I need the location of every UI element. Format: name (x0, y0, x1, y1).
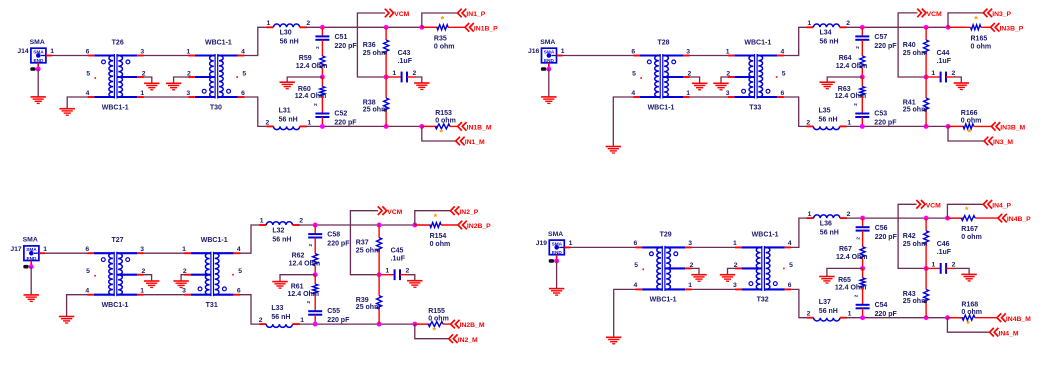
transformer T29 labels (634, 231, 694, 303)
svg-text:END: END (33, 58, 44, 63)
svg-text:R167: R167 (961, 226, 978, 233)
transformer T29 (636, 246, 692, 291)
svg-text:0 ohm: 0 ohm (428, 315, 449, 322)
svg-text:0 ohm: 0 ohm (961, 234, 982, 241)
svg-text:56 nH: 56 nH (271, 314, 290, 321)
svg-text:6: 6 (631, 48, 635, 55)
svg-text:2: 2 (308, 244, 313, 247)
svg-text:L32: L32 (272, 227, 284, 234)
R167 star (965, 205, 969, 216)
svg-text:IN3_P: IN3_P (992, 11, 1011, 18)
svg-text:C45: C45 (391, 248, 404, 255)
svg-text:J16: J16 (528, 48, 540, 55)
svg-text:C56: C56 (875, 225, 888, 232)
svg-text:.1uF: .1uF (391, 256, 406, 263)
resistor R38 (384, 98, 389, 111)
svg-text:2: 2 (853, 103, 858, 106)
wire mid tap to ground (280, 275, 315, 282)
flag IN4_P (983, 200, 1011, 209)
svg-text:4: 4 (85, 288, 89, 295)
svg-text:0 ohm: 0 ohm (971, 43, 992, 50)
svg-text:0 ohm: 0 ohm (961, 118, 982, 125)
wire VCM (357, 13, 386, 77)
svg-text:5: 5 (242, 70, 246, 77)
resistor R153 (435, 124, 450, 129)
C56-R67 lead (862, 231, 864, 247)
svg-text:L31: L31 (279, 108, 291, 115)
svg-text:R155: R155 (428, 308, 445, 315)
C53 labels (853, 103, 897, 127)
R40 lead bottom (925, 54, 927, 78)
svg-text:220 pF: 220 pF (327, 241, 350, 248)
resistor R168 (962, 315, 975, 320)
transformer T26 labels (86, 40, 146, 112)
C52 labels (313, 103, 357, 127)
inductor L31 (274, 126, 300, 129)
R61 labels (288, 284, 320, 298)
resistor R36 (384, 40, 389, 54)
svg-text:56 nH: 56 nH (279, 117, 298, 124)
C45 labels (385, 248, 409, 275)
R42 lead top (925, 218, 927, 231)
svg-text:C43: C43 (398, 50, 411, 57)
svg-text:3: 3 (726, 90, 730, 97)
R42 lead bottom (925, 244, 927, 268)
R59 labels (296, 55, 328, 70)
svg-text:T32: T32 (757, 297, 769, 304)
svg-text:6: 6 (241, 90, 245, 97)
resistor R43 (924, 289, 929, 302)
junction rail/R43 (924, 315, 929, 320)
svg-text:2: 2 (413, 70, 417, 77)
resistor R65 (860, 278, 865, 288)
transformer T28 (634, 54, 690, 99)
transformer T27 labels (85, 237, 145, 309)
svg-text:5: 5 (782, 70, 786, 77)
junction L32/C58 (313, 223, 318, 228)
svg-text:IN3_M: IN3_M (993, 139, 1013, 146)
svg-text:4: 4 (631, 90, 635, 97)
R59 lead bottom (321, 68, 323, 77)
R61-C55 lead (314, 294, 316, 311)
C43 lead 2 (407, 76, 415, 78)
inductor L35 (813, 126, 839, 129)
ground at T27 pin2 (144, 281, 159, 288)
svg-text:1: 1 (182, 246, 186, 253)
svg-text:C54: C54 (875, 302, 888, 309)
resistor R67 (860, 247, 865, 259)
R153 lead right (450, 125, 458, 127)
R165 lead left (948, 26, 971, 28)
svg-text:R59: R59 (299, 55, 312, 62)
L35 labels (806, 108, 851, 127)
flag IN3_M (984, 137, 1013, 146)
wire top rail (846, 26, 964, 28)
R165 labels (971, 35, 992, 50)
R166 lead left (948, 125, 963, 127)
flag VCM (916, 200, 941, 209)
svg-text:3: 3 (686, 48, 690, 55)
inductor L30 (274, 24, 300, 27)
C51 labels (315, 34, 357, 50)
wire J16 pin1 to T28 pin6 (562, 55, 634, 57)
svg-text:220 pF: 220 pF (335, 43, 358, 50)
svg-text:1: 1 (733, 240, 737, 247)
ground at J19 (549, 289, 564, 296)
C56 lead (862, 218, 864, 227)
svg-text:6: 6 (781, 90, 785, 97)
wire T33 pin4 to L34 (783, 27, 813, 55)
svg-text:*: * (432, 325, 436, 336)
R63 labels (835, 86, 867, 100)
junction VCM/R36/R38 (384, 75, 389, 80)
R154 lead left (415, 224, 430, 226)
R42 labels (903, 233, 928, 248)
junction rail/R153 (419, 124, 424, 129)
C46 labels (932, 241, 956, 268)
svg-text:2: 2 (259, 317, 263, 324)
svg-text:220 pF: 220 pF (875, 234, 898, 241)
wire T29 pin3 to T32 pin1 (691, 246, 736, 248)
capacitor C58 (308, 234, 322, 237)
inductor L37 (814, 318, 840, 321)
svg-text:56 nH: 56 nH (819, 308, 838, 315)
wire mid tap to ground (827, 77, 862, 82)
R63-C53 lead (861, 96, 863, 113)
ground at T29 pin4 (606, 337, 621, 344)
R166 labels (961, 110, 982, 124)
svg-text:IN1B_M: IN1B_M (467, 125, 492, 132)
L32 labels (260, 218, 304, 244)
resistor R42 (924, 231, 929, 245)
flag IN2B_M (451, 320, 485, 329)
svg-text:END: END (552, 250, 563, 255)
resistor R64 (860, 56, 865, 68)
svg-text:J17: J17 (10, 246, 22, 253)
transformer T33 labels (726, 40, 786, 112)
J16 labels (528, 39, 565, 55)
C54 lead bottom (862, 308, 864, 317)
svg-text:C57: C57 (874, 34, 887, 41)
wire VCM (898, 13, 926, 77)
svg-text:WBC1-1: WBC1-1 (648, 104, 675, 111)
svg-text:3: 3 (688, 240, 692, 247)
wire T32 pin2 to ground (728, 268, 736, 274)
J16 shield blob (541, 67, 546, 71)
L33 labels (259, 305, 305, 324)
wire to IN2_P (415, 211, 451, 225)
L31 lead right (300, 125, 307, 127)
svg-text:2: 2 (855, 237, 860, 240)
svg-text:25 ohm: 25 ohm (363, 50, 388, 57)
capacitor C51 (315, 36, 329, 39)
junction at J17 shield (29, 264, 34, 269)
wire T27 pin4 to ground (67, 295, 88, 317)
capacitor C55 (308, 311, 322, 315)
inductor L36 (814, 215, 840, 218)
svg-text:T31: T31 (206, 302, 218, 309)
R37 lead bottom (378, 251, 380, 275)
C57 labels (855, 34, 897, 50)
svg-text:T27: T27 (111, 237, 123, 244)
C53 lead bottom (861, 117, 863, 126)
C46 lead 1 (926, 267, 941, 269)
transformer T32 (735, 246, 791, 291)
junction at J19 shield (554, 258, 559, 263)
J17 ground lead (30, 261, 32, 267)
svg-text:1: 1 (931, 70, 935, 77)
L37 lead right (840, 317, 847, 319)
svg-text:2: 2 (952, 70, 956, 77)
svg-text:12.4 Ohm: 12.4 Ohm (835, 93, 867, 100)
wire top rail (846, 217, 964, 219)
flag IN4B_M (997, 313, 1031, 322)
flag VCM (378, 206, 403, 215)
C57 lead (861, 27, 863, 36)
J16 ground lead (548, 63, 550, 69)
svg-text:SMA: SMA (23, 237, 38, 244)
wire bottom rail (299, 323, 431, 325)
R39 lead top (378, 275, 380, 296)
R36 lead top (385, 27, 387, 40)
capacitor C44 (941, 72, 946, 83)
svg-text:R166: R166 (961, 110, 978, 117)
svg-text:C55: C55 (327, 308, 340, 315)
svg-text:END: END (26, 256, 37, 261)
svg-text:WBC1-1: WBC1-1 (744, 40, 771, 47)
C57-R64 lead (861, 40, 863, 56)
svg-text:56 nH: 56 nH (820, 39, 839, 46)
wire bottom rail (846, 125, 964, 127)
J19 shield blob (549, 259, 554, 263)
J17 labels (10, 237, 47, 253)
svg-text:R61: R61 (291, 284, 304, 291)
svg-text:1: 1 (807, 20, 811, 27)
flag VCM (917, 9, 942, 18)
svg-text:0 ohm: 0 ohm (430, 241, 451, 248)
wire VCM (350, 211, 379, 275)
junction rail/R36 (384, 25, 389, 30)
C58 lead (314, 225, 316, 234)
flag IN3B_P (991, 23, 1024, 32)
svg-text:L36: L36 (820, 220, 832, 227)
flag IN4_M (990, 328, 1019, 337)
L35 lead left (806, 125, 813, 127)
wire T28 pin1 to T33 pin3 (689, 96, 728, 98)
svg-text:220 pF: 220 pF (334, 120, 357, 127)
R38 lead bottom (385, 111, 387, 126)
svg-text:1: 1 (688, 282, 692, 289)
R35 labels (434, 35, 455, 50)
flag IN3B_M (991, 122, 1025, 131)
svg-text:4: 4 (86, 90, 90, 97)
junction L33/C55 (313, 322, 318, 327)
L33 lead left (259, 323, 266, 325)
C43 lead 1 (386, 76, 402, 78)
svg-text:*: * (441, 14, 445, 25)
R155 lead left (415, 323, 428, 325)
svg-text:1: 1 (50, 48, 54, 55)
junction L34/C57 (860, 25, 865, 30)
junction L35/C53 (860, 124, 865, 129)
wire T27 pin3 to T31 pin1 (143, 252, 185, 254)
ground at C43 (414, 83, 429, 90)
svg-text:25 ohm: 25 ohm (356, 304, 381, 311)
flag IN2_P (451, 206, 479, 215)
transformer T31 (184, 252, 240, 297)
R154 star (434, 212, 438, 223)
wire T29 pin2 to ground (691, 268, 699, 274)
svg-text:56 nH: 56 nH (820, 229, 839, 236)
wire to IN1_P (422, 13, 458, 27)
wire T28 pin2 to ground (689, 77, 700, 83)
svg-text:56 nH: 56 nH (819, 117, 838, 124)
R165 lead right (981, 26, 991, 28)
R155 labels (428, 308, 449, 322)
flag IN4B_P (998, 214, 1031, 223)
R35 lead left (422, 26, 437, 28)
junction rail/R37 (377, 223, 382, 228)
capacitor C45 (395, 269, 400, 280)
L37 labels (807, 299, 852, 318)
svg-text:*: * (967, 128, 971, 139)
svg-text:1: 1 (848, 311, 852, 318)
svg-text:1: 1 (267, 20, 271, 27)
ground at T27 pin4 (59, 317, 74, 324)
R43 lead bottom (925, 303, 927, 318)
svg-text:L35: L35 (819, 108, 831, 115)
transformer T30 labels (186, 40, 246, 112)
resistor R63 (860, 87, 865, 97)
svg-text:0 ohm: 0 ohm (435, 118, 456, 125)
svg-text:220 pF: 220 pF (874, 43, 897, 50)
svg-text:25 ohm: 25 ohm (356, 248, 381, 255)
C51 lead (321, 27, 323, 36)
wire T28 pin3 to T33 pin1 (689, 55, 728, 57)
svg-text:L34: L34 (820, 30, 832, 37)
svg-text:R38: R38 (363, 100, 376, 107)
junction L37/C54 (860, 315, 865, 320)
svg-text:1: 1 (260, 218, 264, 225)
transformer T28 labels (631, 40, 691, 112)
resistor R35 (437, 25, 448, 30)
wire T28 pin4 to ground (613, 97, 634, 147)
flag IN1B_P (465, 23, 498, 32)
svg-text:1: 1 (307, 119, 311, 126)
R168 lead left (947, 317, 962, 319)
svg-text:1: 1 (300, 317, 304, 324)
R41 lead bottom (925, 111, 927, 126)
resistor R40 (924, 40, 929, 54)
resistor R62 (313, 254, 318, 266)
svg-text:.1uF: .1uF (937, 249, 952, 256)
wire bottom rail (846, 317, 964, 319)
flag VCM (385, 9, 410, 18)
R62 lead bottom (314, 266, 316, 275)
wire T26 pin3 to T30 pin1 (143, 55, 189, 57)
svg-text:4: 4 (634, 282, 638, 289)
L33 lead right (293, 323, 300, 325)
R38 labels (363, 100, 388, 114)
R36 lead bottom (385, 54, 387, 78)
svg-text:WBC1-1: WBC1-1 (201, 237, 228, 244)
svg-text:IN2_P: IN2_P (459, 209, 478, 216)
L36 lead left (807, 217, 814, 219)
svg-text:IN2B_M: IN2B_M (460, 322, 485, 329)
R64 lead bottom (861, 68, 863, 77)
R168 star (966, 319, 970, 330)
svg-text:0 ohm: 0 ohm (961, 309, 982, 316)
ground at J17 (24, 295, 39, 302)
resistor R37 (377, 238, 382, 252)
svg-text:*: * (966, 319, 970, 330)
svg-text:L33: L33 (271, 305, 283, 312)
svg-text:56 nH: 56 nH (280, 39, 299, 46)
C58-R62 lead (314, 238, 316, 254)
flag IN2_M (449, 334, 478, 343)
svg-text:2: 2 (306, 301, 311, 304)
capacitor C57 (855, 36, 869, 39)
svg-text:C51: C51 (335, 34, 348, 41)
svg-text:1: 1 (686, 90, 690, 97)
wire J17 to ground (30, 267, 32, 295)
svg-text:R154: R154 (430, 233, 447, 240)
svg-text:IN3B_P: IN3B_P (1000, 25, 1024, 32)
J14 labels (17, 39, 54, 55)
ground at mid tap (272, 282, 287, 289)
svg-text:56 nH: 56 nH (272, 236, 291, 243)
svg-text:2: 2 (853, 294, 858, 297)
svg-text:5: 5 (634, 262, 638, 269)
svg-text:R153: R153 (435, 110, 452, 117)
svg-text:220 pF: 220 pF (874, 120, 897, 127)
wire top rail (306, 26, 438, 28)
svg-text:IN2B_P: IN2B_P (467, 223, 491, 230)
wire bottom rail (306, 125, 438, 127)
svg-text:WBC1-1: WBC1-1 (650, 297, 677, 304)
svg-text:R43: R43 (903, 291, 916, 298)
junction rail/R42 (924, 216, 929, 221)
svg-text:1: 1 (385, 268, 389, 275)
svg-text:IN1_P: IN1_P (466, 11, 485, 18)
resistor R60 (320, 87, 325, 97)
ground at mid tap (819, 277, 834, 284)
wire VCM (898, 204, 926, 268)
R40 labels (903, 42, 928, 57)
R168 labels (961, 302, 982, 316)
resistor R155 (428, 322, 443, 327)
transformer T31 labels (182, 237, 242, 309)
svg-text:2: 2 (406, 268, 410, 275)
svg-text:1: 1 (847, 119, 851, 126)
L30 labels (267, 20, 311, 46)
resistor R166 (963, 124, 974, 129)
L31 lead left (267, 125, 274, 127)
svg-text:2: 2 (266, 119, 270, 126)
L34 lead right (840, 26, 847, 28)
ground at T33 pin2 (713, 83, 728, 90)
svg-text:2: 2 (847, 211, 851, 218)
flag IN1_M (456, 137, 485, 146)
wire T30 pin4 to L30 (244, 27, 274, 55)
ground at T30 pin2 (166, 83, 181, 90)
wire to IN4_M (947, 318, 989, 333)
wire T27 pin1 to T31 pin3 (143, 294, 185, 296)
wire to IN4_P (947, 204, 983, 218)
wire C44 to ground (954, 77, 962, 83)
SMA connector J14 (31, 48, 46, 63)
junction rail/R38 (384, 124, 389, 129)
